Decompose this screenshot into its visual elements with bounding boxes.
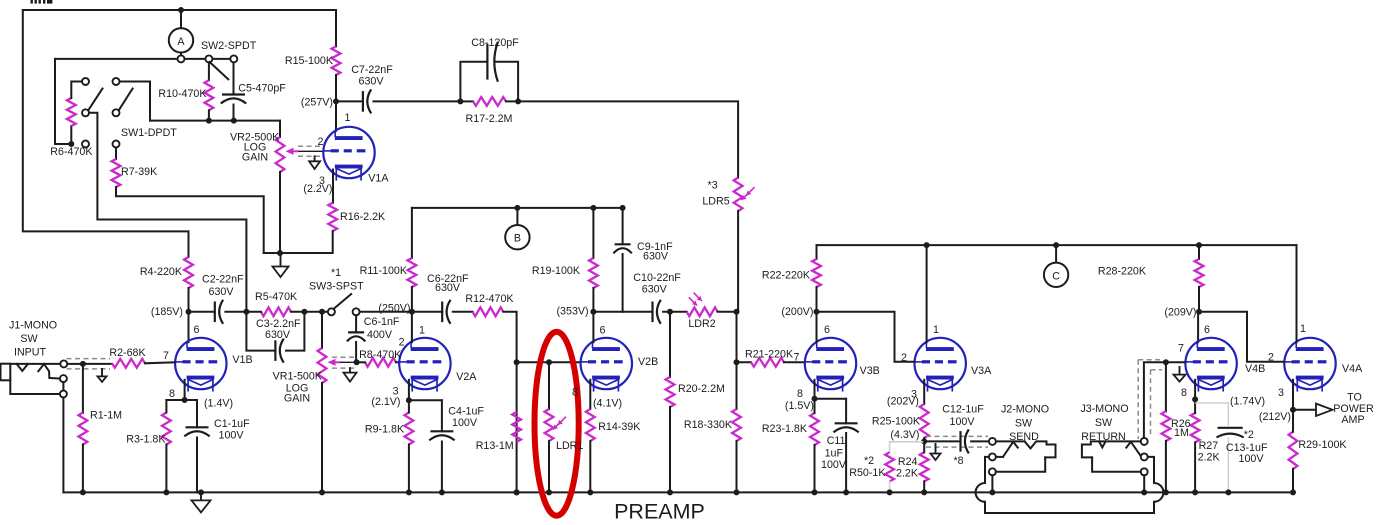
svg-text:R2-68K: R2-68K — [109, 347, 146, 359]
svg-text:(4.1V): (4.1V) — [593, 398, 622, 410]
svg-text:630V: 630V — [642, 284, 668, 296]
svg-text:LDR2: LDR2 — [688, 318, 715, 330]
svg-text:AMP: AMP — [1341, 414, 1364, 426]
svg-text:(1.4V): (1.4V) — [204, 398, 233, 410]
svg-text:A: A — [177, 36, 185, 48]
svg-text:J2-MONO: J2-MONO — [1001, 404, 1049, 416]
svg-text:(1.74V): (1.74V) — [1230, 396, 1265, 408]
svg-text:100V: 100V — [452, 417, 478, 429]
svg-text:C10-22nF: C10-22nF — [633, 272, 681, 284]
svg-text:V1B: V1B — [232, 354, 252, 366]
svg-text:*1: *1 — [331, 267, 341, 279]
svg-text:(353V): (353V) — [557, 306, 589, 318]
svg-text:(202V): (202V) — [887, 396, 919, 408]
svg-text:630V: 630V — [359, 76, 385, 88]
svg-text:R21-220K: R21-220K — [745, 349, 794, 361]
svg-text:R3-1.8K: R3-1.8K — [126, 434, 166, 446]
svg-text:100V: 100V — [821, 459, 847, 471]
svg-text:100V: 100V — [219, 430, 245, 442]
svg-text:C8-120pF: C8-120pF — [471, 37, 519, 49]
svg-text:1: 1 — [933, 324, 939, 336]
svg-text:SEND: SEND — [1009, 431, 1039, 443]
svg-text:GAIN: GAIN — [284, 393, 310, 405]
svg-text:(200V): (200V) — [781, 306, 813, 318]
svg-text:R4-220K: R4-220K — [140, 266, 183, 278]
svg-text:8: 8 — [572, 387, 578, 399]
svg-text:R27: R27 — [1199, 440, 1219, 452]
svg-text:SW: SW — [1015, 418, 1033, 430]
svg-text:7: 7 — [794, 352, 800, 364]
svg-text:INPUT: INPUT — [14, 347, 47, 359]
svg-text:*2: *2 — [864, 455, 874, 467]
svg-text:R17-2.2M: R17-2.2M — [466, 113, 513, 125]
svg-text:(1.5V): (1.5V) — [785, 400, 814, 412]
svg-text:R10-470K: R10-470K — [158, 88, 207, 100]
svg-text:R15-100K: R15-100K — [285, 55, 334, 67]
svg-text:1: 1 — [1300, 323, 1306, 335]
svg-text:8: 8 — [169, 388, 175, 400]
svg-text:R5-470K: R5-470K — [255, 291, 298, 303]
svg-text:V3A: V3A — [971, 365, 992, 377]
svg-text:(209V): (209V) — [1164, 307, 1196, 319]
svg-text:R13-1M: R13-1M — [476, 440, 514, 452]
svg-text:C1-1uF: C1-1uF — [214, 418, 250, 430]
svg-text:(250V): (250V) — [378, 303, 410, 315]
svg-text:100V: 100V — [1239, 453, 1265, 465]
svg-text:R6-470K: R6-470K — [50, 146, 93, 158]
svg-text:V2A: V2A — [456, 371, 477, 383]
svg-text:V4A: V4A — [1342, 363, 1363, 375]
svg-text:POWER: POWER — [1333, 403, 1374, 415]
svg-text:SW: SW — [1095, 417, 1113, 429]
svg-text:7: 7 — [163, 350, 169, 362]
svg-text:PREAMP: PREAMP — [614, 500, 705, 524]
svg-text:630V: 630V — [265, 329, 291, 341]
svg-text:R9-1.8K: R9-1.8K — [365, 424, 405, 436]
svg-text:RETURN: RETURN — [1081, 431, 1126, 443]
svg-text:R12-470K: R12-470K — [465, 293, 514, 305]
svg-text:C7-22nF: C7-22nF — [351, 64, 393, 76]
svg-text:R24: R24 — [898, 456, 918, 468]
svg-text:6: 6 — [600, 325, 606, 337]
svg-text:6: 6 — [824, 324, 830, 336]
svg-text:2: 2 — [1268, 352, 1274, 364]
svg-text:R11-100K: R11-100K — [360, 265, 408, 277]
svg-text:V4B: V4B — [1245, 363, 1265, 375]
svg-text:(212V): (212V) — [1259, 411, 1291, 423]
svg-text:630V: 630V — [435, 282, 461, 294]
svg-text:8: 8 — [797, 388, 803, 400]
svg-text:V2B: V2B — [638, 356, 658, 368]
svg-text:SW2-SPDT: SW2-SPDT — [201, 40, 257, 52]
svg-text:2.2K: 2.2K — [1198, 452, 1221, 464]
svg-text:C6-1nF: C6-1nF — [364, 316, 400, 328]
svg-text:(2.2V): (2.2V) — [303, 183, 332, 195]
svg-text:(257V): (257V) — [301, 97, 333, 109]
svg-text:C12-1uF: C12-1uF — [942, 404, 984, 416]
svg-text:GAIN: GAIN — [242, 152, 268, 164]
svg-text:R29-100K: R29-100K — [1298, 439, 1347, 451]
svg-text:C5-470pF: C5-470pF — [238, 83, 286, 95]
svg-text:R28-220K: R28-220K — [1098, 266, 1147, 278]
svg-text:*8: *8 — [953, 455, 963, 467]
svg-text:1M: 1M — [1174, 427, 1189, 439]
svg-text:2: 2 — [318, 136, 324, 148]
svg-text:2: 2 — [901, 352, 907, 364]
svg-text:1: 1 — [419, 325, 425, 337]
svg-text:(2.1V): (2.1V) — [371, 396, 400, 408]
svg-text:TO: TO — [1347, 392, 1362, 404]
svg-text:*3: *3 — [708, 180, 718, 192]
svg-text:R18-330K: R18-330K — [684, 419, 733, 431]
svg-text:2: 2 — [399, 337, 405, 349]
svg-text:1: 1 — [345, 112, 351, 124]
svg-text:C4-1uF: C4-1uF — [448, 406, 484, 418]
svg-text:C2-22nF: C2-22nF — [202, 274, 244, 286]
svg-text:7: 7 — [1178, 343, 1184, 355]
svg-text:C: C — [1052, 270, 1060, 282]
svg-text:8: 8 — [1181, 387, 1187, 399]
svg-text:R19-100K: R19-100K — [532, 265, 581, 277]
svg-text:LDR1: LDR1 — [556, 440, 583, 452]
svg-text:B: B — [514, 233, 521, 245]
svg-text:(4.3V): (4.3V) — [890, 429, 919, 441]
svg-text:630V: 630V — [643, 251, 669, 263]
svg-text:R23-1.8K: R23-1.8K — [762, 423, 808, 435]
svg-text:6: 6 — [1204, 324, 1210, 336]
svg-text:R14-39K: R14-39K — [598, 421, 641, 433]
svg-text:2.2K: 2.2K — [896, 468, 919, 480]
svg-text:100V: 100V — [950, 416, 976, 428]
svg-text:SW1-DPDT: SW1-DPDT — [121, 127, 177, 139]
svg-text:(185V): (185V) — [151, 306, 183, 318]
svg-text:R16-2.2K: R16-2.2K — [340, 211, 386, 223]
svg-text:VR1-500K: VR1-500K — [273, 371, 323, 383]
svg-text:R7-39K: R7-39K — [121, 166, 158, 178]
svg-text:SW3-SPST: SW3-SPST — [309, 281, 364, 293]
svg-text:3: 3 — [1278, 387, 1284, 399]
svg-text:1uF: 1uF — [825, 448, 844, 460]
svg-text:J3-MONO: J3-MONO — [1080, 403, 1128, 415]
svg-text:V1A: V1A — [368, 173, 389, 185]
svg-text:6: 6 — [194, 324, 200, 336]
svg-text:LDR5: LDR5 — [702, 196, 729, 208]
svg-text:SW: SW — [20, 333, 38, 345]
svg-text:R25-100K: R25-100K — [872, 416, 921, 428]
svg-text:R50-1K: R50-1K — [849, 467, 886, 479]
svg-text:R22-220K: R22-220K — [762, 270, 811, 282]
svg-text:J1-MONO: J1-MONO — [9, 320, 57, 332]
svg-text:630V: 630V — [209, 286, 235, 298]
svg-text:C11: C11 — [827, 435, 846, 447]
svg-text:R1-1M: R1-1M — [90, 410, 122, 422]
svg-text:V3B: V3B — [860, 365, 880, 377]
svg-text:R20-2.2M: R20-2.2M — [678, 383, 725, 395]
svg-text:*2: *2 — [1244, 429, 1254, 441]
svg-text:R8-470K: R8-470K — [359, 349, 402, 361]
svg-text:400V: 400V — [367, 329, 393, 341]
